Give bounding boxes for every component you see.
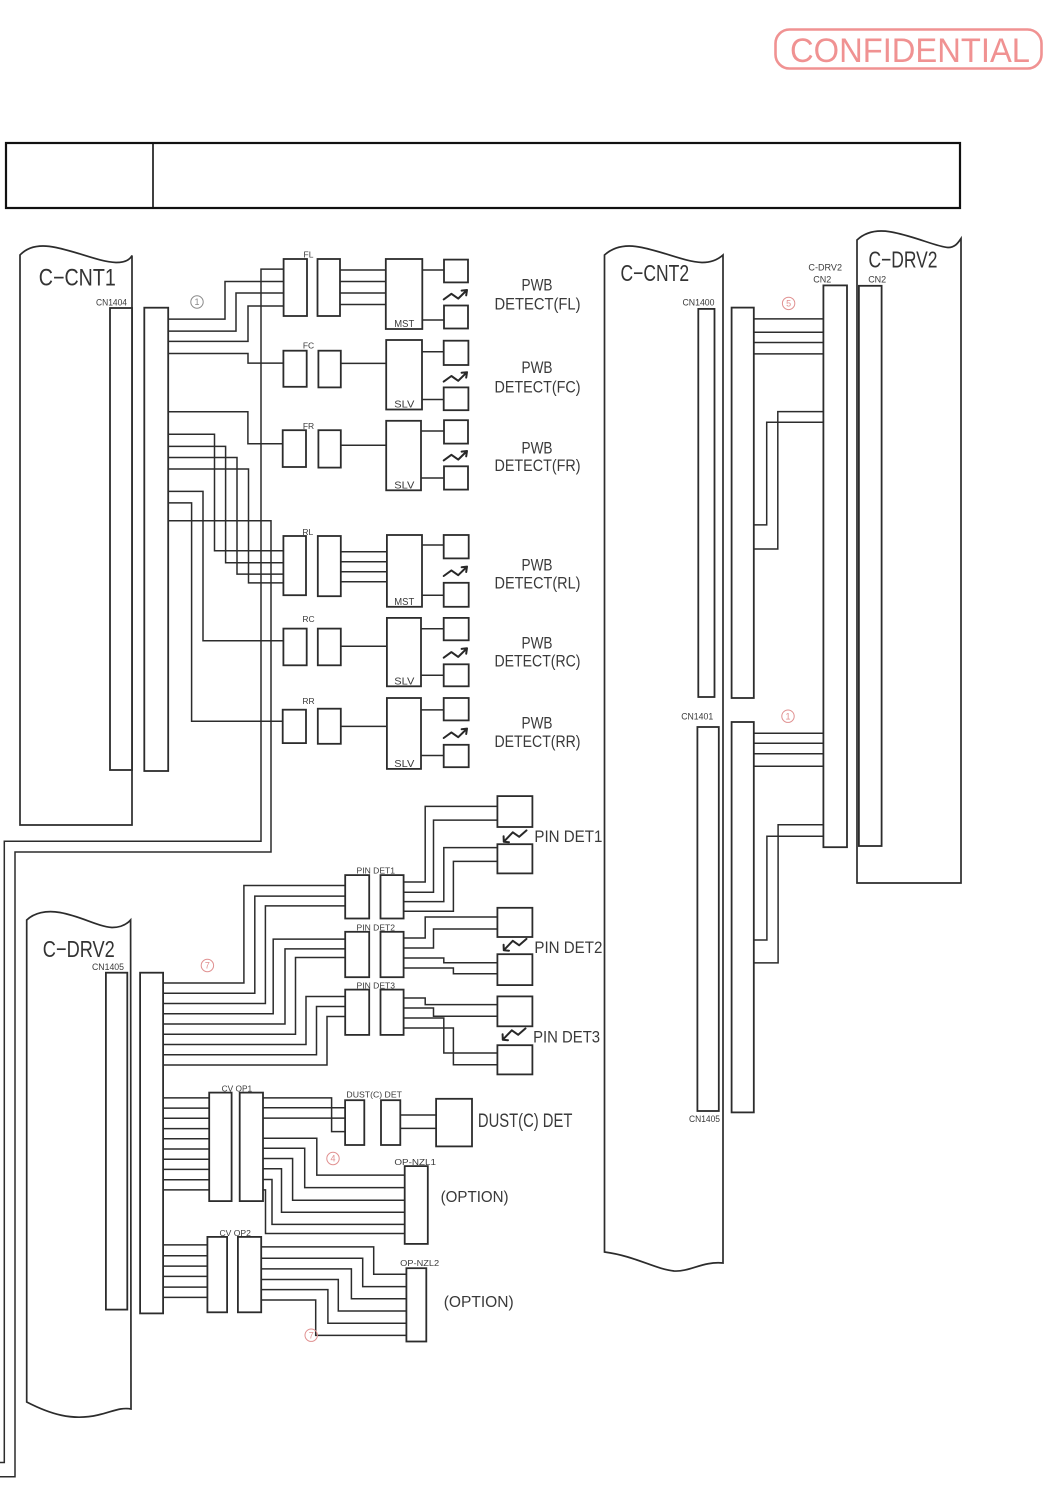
svg-text:C−DRV2: C−DRV2 <box>869 247 938 273</box>
svg-text:CN1400: CN1400 <box>683 298 715 308</box>
svg-text:CONFIDENTIAL: CONFIDENTIAL <box>790 32 1030 70</box>
svg-text:OP-NZL1: OP-NZL1 <box>394 1157 436 1167</box>
svg-text:CN1401: CN1401 <box>681 712 713 722</box>
svg-text:(OPTION): (OPTION) <box>444 1294 514 1311</box>
svg-text:DETECT(RR): DETECT(RR) <box>495 733 581 751</box>
svg-text:RC: RC <box>302 614 314 624</box>
svg-text:PWB: PWB <box>522 276 553 294</box>
svg-text:MST: MST <box>394 596 415 608</box>
svg-text:PIN DET2: PIN DET2 <box>534 939 602 957</box>
svg-text:RR: RR <box>302 696 314 706</box>
svg-text:FC: FC <box>303 341 314 351</box>
svg-text:FR: FR <box>303 421 314 431</box>
svg-text:4: 4 <box>330 1154 335 1164</box>
svg-text:CN1404: CN1404 <box>96 298 127 308</box>
svg-text:C−CNT2: C−CNT2 <box>621 260 690 286</box>
svg-text:CV OP2: CV OP2 <box>220 1228 252 1238</box>
svg-text:DUST(C) DET: DUST(C) DET <box>478 1111 573 1132</box>
svg-text:DETECT(FL): DETECT(FL) <box>495 295 581 313</box>
svg-text:DETECT(RL): DETECT(RL) <box>495 575 581 593</box>
svg-text:OP-NZL2: OP-NZL2 <box>400 1258 439 1268</box>
svg-text:7: 7 <box>309 1330 314 1340</box>
svg-text:SLV: SLV <box>394 399 414 411</box>
svg-text:CN1405: CN1405 <box>92 962 124 972</box>
svg-text:C−CNT1: C−CNT1 <box>39 265 116 292</box>
svg-text:DUST(C) DET: DUST(C) DET <box>346 1089 402 1099</box>
svg-text:PWB: PWB <box>522 715 553 733</box>
svg-text:PIN DET3: PIN DET3 <box>533 1028 600 1046</box>
svg-text:PIN DET2: PIN DET2 <box>357 923 396 933</box>
svg-text:C-DRV2: C-DRV2 <box>808 262 842 272</box>
svg-text:(OPTION): (OPTION) <box>441 1189 509 1206</box>
svg-text:C−DRV2: C−DRV2 <box>43 936 115 962</box>
svg-text:SLV: SLV <box>394 479 414 491</box>
svg-text:SLV: SLV <box>394 675 414 687</box>
svg-text:CN2: CN2 <box>868 275 886 285</box>
svg-text:PIN DET3: PIN DET3 <box>357 980 396 990</box>
svg-text:PWB: PWB <box>522 440 553 458</box>
svg-text:PIN DET1: PIN DET1 <box>534 828 602 846</box>
svg-text:PWB: PWB <box>522 635 553 653</box>
svg-text:1: 1 <box>785 711 790 721</box>
svg-text:MST: MST <box>394 318 415 330</box>
svg-text:DETECT(RC): DETECT(RC) <box>495 652 581 670</box>
svg-text:7: 7 <box>205 961 210 971</box>
svg-text:CN2: CN2 <box>813 275 831 285</box>
svg-text:FL: FL <box>304 250 314 260</box>
svg-text:SLV: SLV <box>394 758 414 770</box>
svg-text:RL: RL <box>302 527 313 537</box>
svg-text:PIN DET1: PIN DET1 <box>357 865 396 875</box>
svg-text:DETECT(FC): DETECT(FC) <box>495 379 581 397</box>
svg-text:5: 5 <box>786 299 791 309</box>
svg-text:CN1405: CN1405 <box>689 1114 720 1124</box>
svg-text:PWB: PWB <box>522 556 553 574</box>
svg-text:PWB: PWB <box>522 359 553 377</box>
svg-text:CV OP1: CV OP1 <box>222 1083 253 1093</box>
svg-text:1: 1 <box>194 297 199 307</box>
svg-text:DETECT(FR): DETECT(FR) <box>495 457 581 475</box>
